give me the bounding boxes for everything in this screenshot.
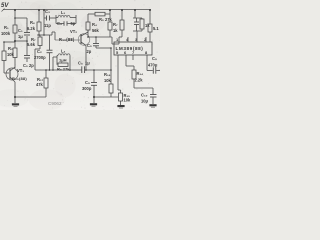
svg-text:300p: 300p (82, 86, 92, 91)
svg-text:R₁₀(88): R₁₀(88) (59, 37, 75, 42)
svg-text:LM389(88): LM389(88) (116, 46, 144, 51)
svg-text:C₅ 2p: C₅ 2p (23, 63, 34, 68)
svg-text:2.2k: 2.2k (135, 78, 144, 83)
svg-text:1k: 1k (113, 28, 118, 33)
svg-text:VT₂: VT₂ (70, 29, 77, 34)
svg-text:C₅: C₅ (87, 43, 92, 48)
svg-text:5V: 5V (1, 3, 9, 9)
svg-text:10k: 10k (7, 52, 15, 57)
svg-text:R₂: R₂ (8, 46, 13, 51)
svg-text:1k: 1k (145, 23, 150, 28)
svg-text:R₇: R₇ (113, 22, 118, 27)
svg-text:10k: 10k (124, 98, 132, 103)
svg-text:R₁₄: R₁₄ (137, 71, 144, 76)
svg-text:5p: 5p (71, 21, 76, 26)
svg-text:R₉ 27k: R₉ 27k (57, 66, 70, 71)
svg-text:C₉: C₉ (152, 56, 157, 61)
svg-text:2p: 2p (87, 49, 92, 54)
svg-text:R₁₅(88): R₁₅(88) (12, 76, 27, 81)
svg-text:C₉: C₉ (85, 80, 90, 85)
svg-text:C₂: C₂ (37, 49, 42, 54)
svg-text:2700p: 2700p (34, 55, 46, 60)
svg-text:10μ: 10μ (141, 99, 149, 104)
svg-text:10k: 10k (104, 78, 112, 83)
svg-text:C₁₀: C₁₀ (141, 93, 148, 98)
svg-text:5.1: 5.1 (153, 26, 159, 31)
svg-text:R₆: R₆ (30, 20, 35, 25)
